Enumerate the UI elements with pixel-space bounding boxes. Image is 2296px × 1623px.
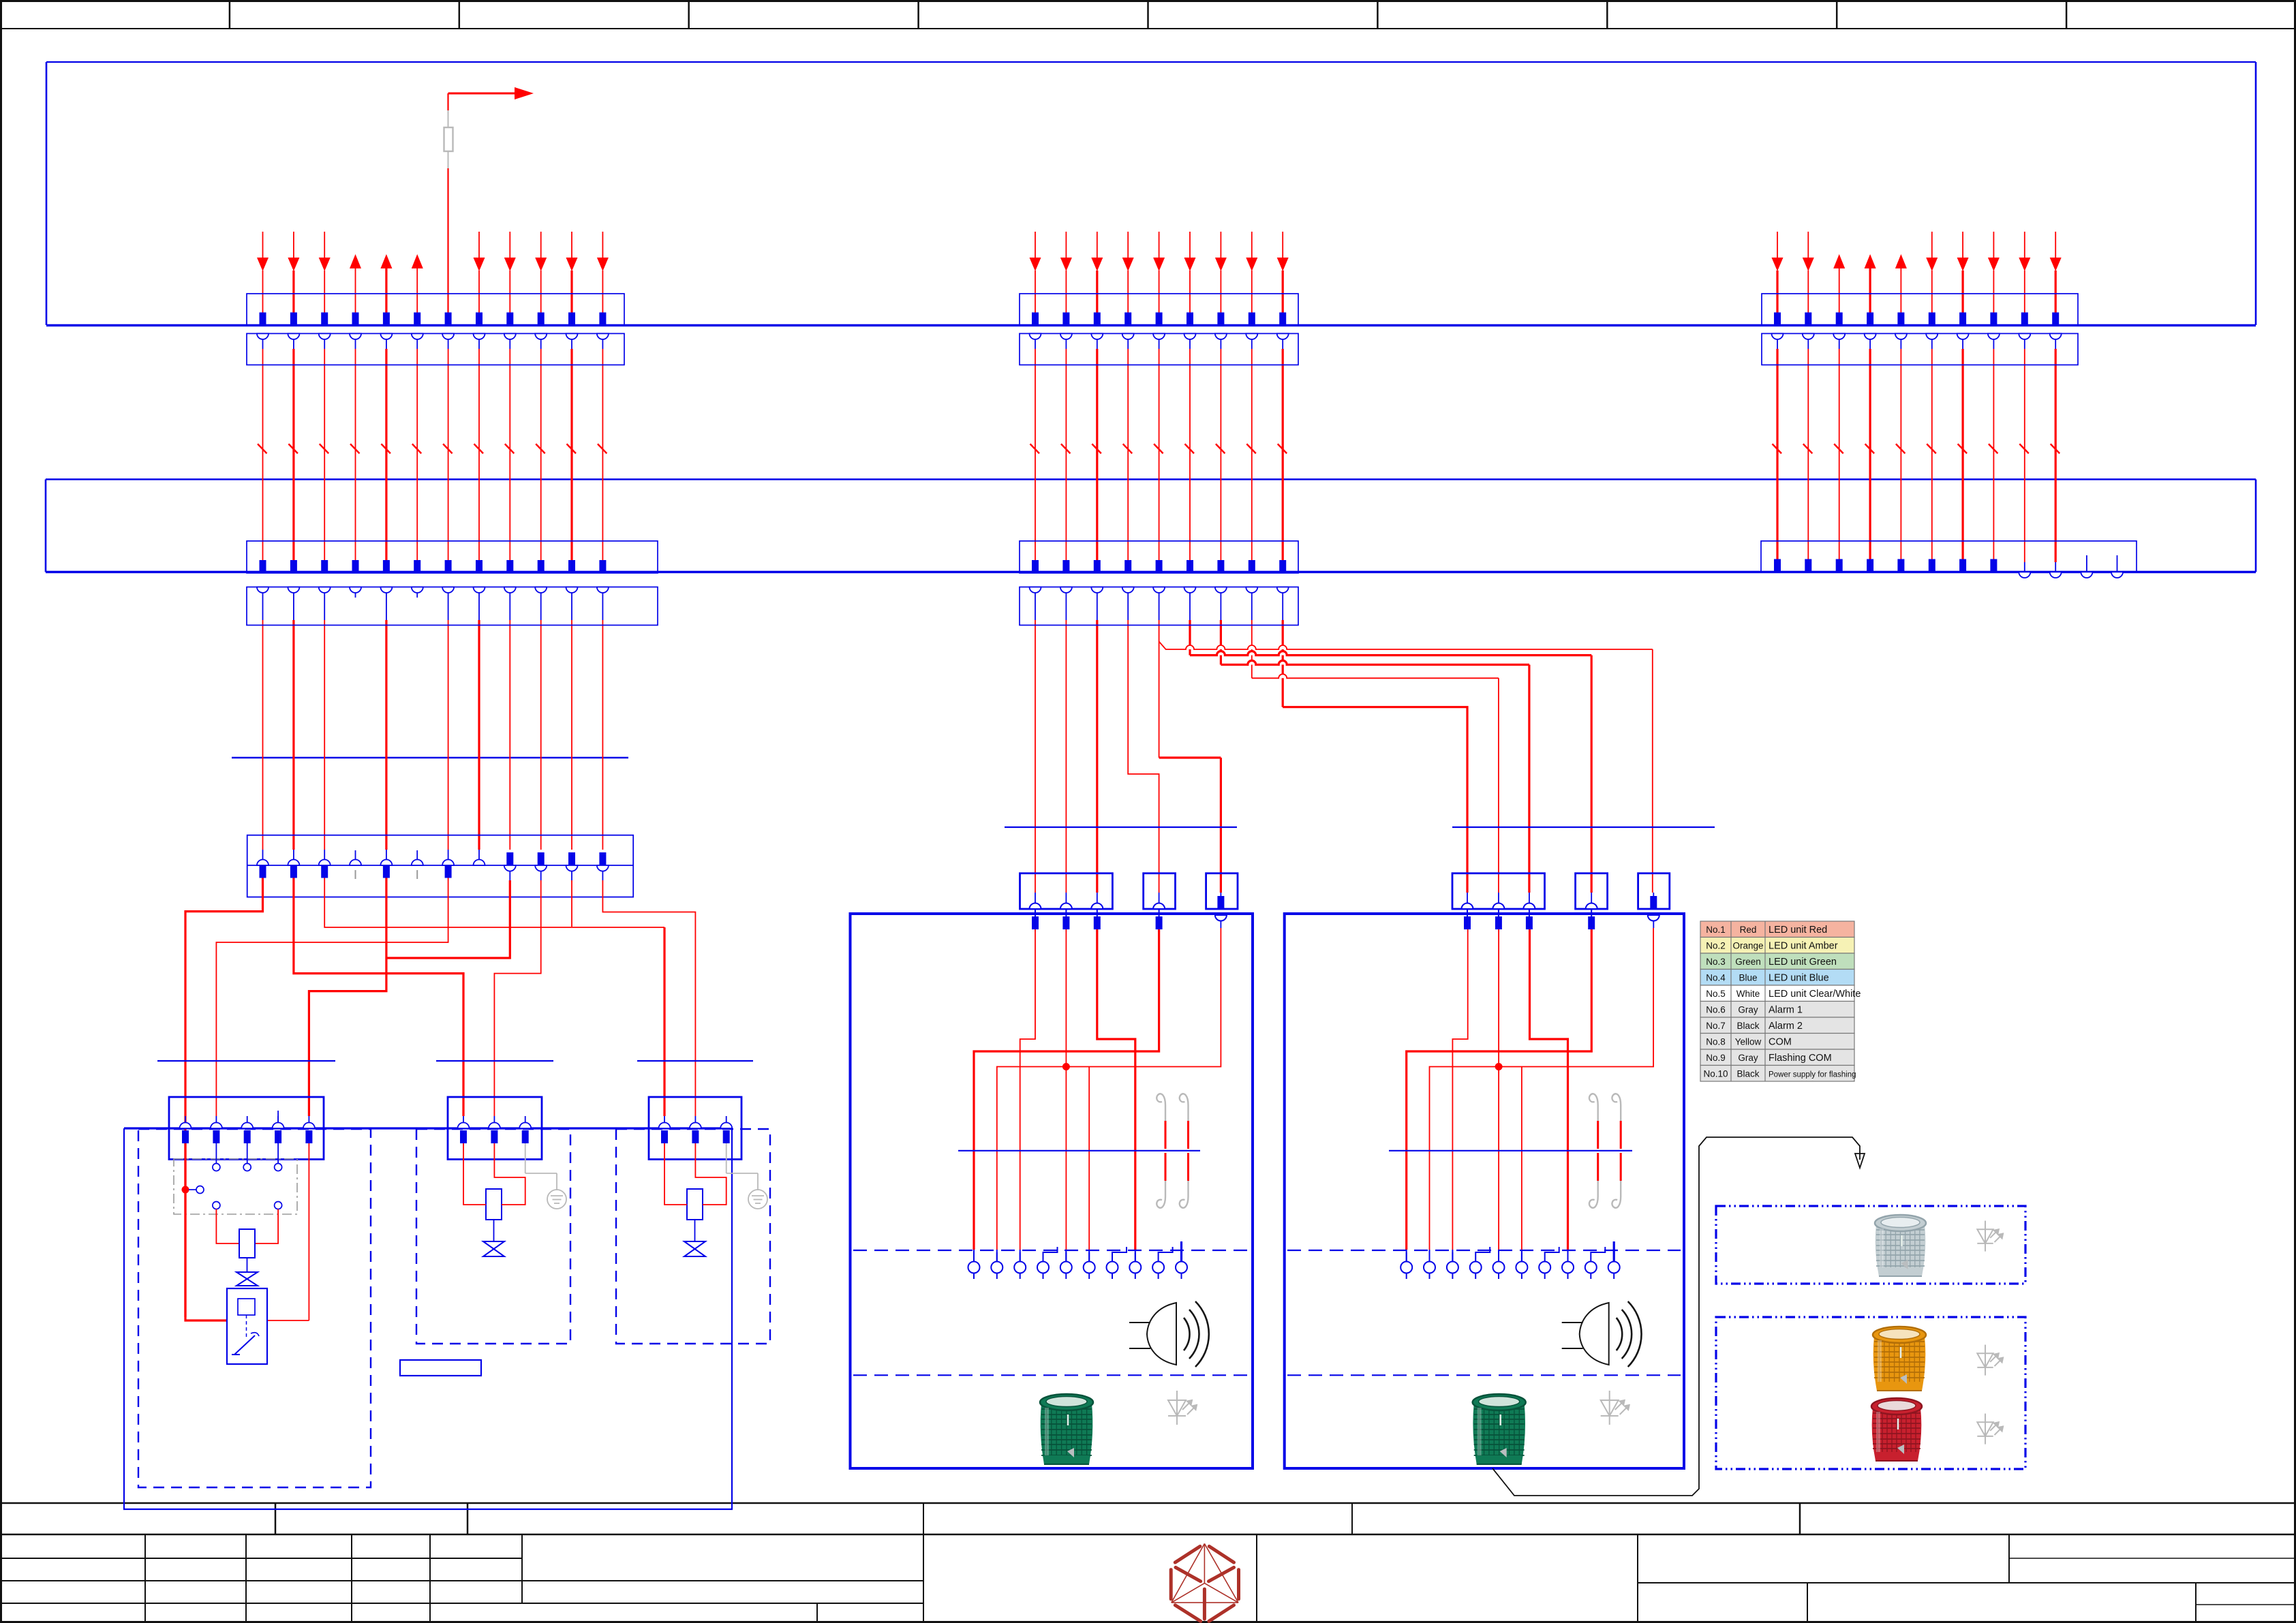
signal feeder wire M3 (1097, 587, 1098, 621)
wire row2-row3 L12 (602, 587, 603, 621)
dashed machine zone 1 (138, 1129, 371, 1487)
field wire R8 with arrow (1993, 232, 1994, 258)
signal feeder wire M5 (1159, 587, 1160, 621)
field wire L9 with arrow (509, 232, 510, 258)
signal tower unit box 2 (1285, 914, 1684, 1468)
row3 terminal pole 7 (442, 860, 454, 866)
wire and disconnect link L2 (293, 334, 294, 350)
right box cluster A (3 poles) (1452, 874, 1545, 909)
wire M5 split: right box cluster C and left box cluster C (1159, 620, 1160, 642)
wire and disconnect link R8 (1993, 334, 1994, 350)
left box cluster B (1144, 874, 1176, 909)
PLC cabinet band 2 (second bus enclosure) (46, 478, 2256, 480)
field wire M8 with arrow (1251, 232, 1253, 258)
svg-text:No.9: No.9 (1706, 1053, 1726, 1063)
svg-text:No.10: No.10 (1703, 1069, 1728, 1079)
field wire L3 with arrow (324, 232, 325, 258)
left box cluster C (1206, 874, 1238, 909)
svg-text:Orange: Orange (1732, 941, 1763, 951)
wire and disconnect link L11 (571, 334, 572, 350)
row3 terminal pole 2 (288, 860, 299, 866)
fuse F1 (448, 110, 449, 127)
svg-text:LED unit Clear/White: LED unit Clear/White (1769, 989, 1861, 1000)
title block lines (0, 1502, 2296, 1504)
wire row2-row3 L11 (571, 587, 572, 621)
junction dot (1495, 1064, 1502, 1070)
wire and disconnect link M8 (1251, 334, 1253, 350)
alarm contact 1a (1157, 1094, 1165, 1121)
LED symbol amber (1977, 1345, 2003, 1376)
LED symbol right box (1601, 1391, 1629, 1425)
svg-text:Black: Black (1736, 1069, 1759, 1079)
field wire R4 with arrow (1865, 254, 1876, 268)
wire and disconnect link M1 (1035, 334, 1036, 350)
row3 terminal pole 3 (319, 860, 331, 866)
horn sounder 2 (1562, 1301, 1642, 1367)
row3 terminal pole 12 (599, 852, 606, 865)
wires cluster2 (463, 1143, 486, 1205)
svg-text:Red: Red (1740, 925, 1757, 935)
terminal strip X1 row1 right (10 poles) (1762, 294, 2078, 326)
svg-text:Power supply for flashing: Power supply for flashing (1769, 1071, 1856, 1079)
signal feeder wire M6 (1189, 587, 1191, 621)
svg-text:No.7: No.7 (1706, 1021, 1726, 1031)
M5 horizontal to right cluster C with hops (1186, 645, 1194, 649)
row3 terminal pole 10 (538, 852, 545, 865)
wires cluster1 (215, 1143, 217, 1164)
wires cluster3 (664, 1143, 687, 1205)
valve terminal cluster 1 (5 poles) (169, 1097, 324, 1160)
svg-text:Blue: Blue (1739, 973, 1757, 983)
terminal circles row (968, 1262, 980, 1273)
field wire L4 with arrow (350, 254, 361, 268)
internal bus line left box (958, 1150, 1200, 1151)
wire and disconnect link M7 (1220, 334, 1221, 350)
wire and disconnect link R1 (1777, 334, 1778, 350)
name plate (400, 1360, 481, 1376)
wire M4 to cluster B left (1128, 620, 1159, 893)
row3 terminal pole 11 (568, 852, 575, 865)
row3 terminal pole 1 (257, 860, 269, 866)
left box cluster A (3 poles) (1020, 874, 1113, 909)
limit switch assembly (dash-dot) (174, 1159, 297, 1214)
wire and disconnect link M6 (1189, 334, 1191, 350)
LED unit photo amber (1873, 1327, 1926, 1391)
svg-text:No.5: No.5 (1706, 989, 1726, 999)
svg-text:No.8: No.8 (1706, 1037, 1726, 1047)
alarm contact 2a (1589, 1094, 1598, 1121)
field wire L2 with arrow (293, 232, 294, 258)
wire and disconnect link L8 (478, 334, 480, 350)
option box amber/red units (1716, 1317, 2025, 1469)
svg-text:LED unit Blue: LED unit Blue (1769, 973, 1829, 984)
field wire L10 with arrow (540, 232, 542, 258)
wire fuse to terminal row1 (447, 168, 448, 313)
svg-text:No.2: No.2 (1706, 941, 1726, 951)
signal feeder wire M1 (1035, 587, 1036, 621)
solenoid coil K2 (486, 1189, 502, 1220)
svg-text:No.1: No.1 (1706, 925, 1726, 935)
contact circles (213, 1164, 220, 1171)
field wire L12 with arrow (602, 232, 603, 258)
terminal strip X1 row1 left (12 poles) (247, 294, 624, 326)
signal feeder wire M8 (1251, 587, 1253, 621)
row3 terminal pole 9 (506, 852, 513, 865)
internal wiring (1452, 929, 1467, 1250)
row3 terminal pole 8 (474, 860, 485, 866)
company logo (1171, 1547, 1238, 1622)
valve V3 (694, 1220, 696, 1241)
signal feeder wire M7 (1220, 587, 1221, 621)
wire row2-row3 L9 (509, 587, 510, 621)
row3 terminal pole 6 (412, 860, 423, 866)
M7 horizontal to right cluster A3 with hops (1248, 661, 1256, 665)
field wire R3 with arrow (1833, 254, 1845, 268)
terminal strip X2 row2 left (247, 541, 658, 573)
svg-text:No.6: No.6 (1706, 1005, 1726, 1015)
field wire M2 with arrow (1065, 232, 1067, 258)
internal wiring (1020, 929, 1035, 1250)
LED symbol left box (1168, 1391, 1197, 1425)
wire and disconnect link R2 (1807, 334, 1809, 350)
field wire L5 with arrow (380, 254, 392, 268)
wire and disconnect link L4 (355, 334, 356, 350)
svg-text:No.3: No.3 (1706, 957, 1726, 967)
leader line to option boxes (1493, 1137, 1860, 1496)
signal tower unit box 1 (851, 914, 1253, 1468)
dashed machine zone 3 (616, 1129, 770, 1344)
svg-text:Alarm 1: Alarm 1 (1769, 1005, 1803, 1016)
wire and disconnect link L7 (448, 334, 449, 350)
wire and disconnect link L3 (324, 334, 325, 350)
wire row2-row3 L5 (386, 587, 387, 621)
LED unit photo green 1 (1040, 1394, 1093, 1464)
terminal circles row (1400, 1262, 1412, 1273)
svg-text:Flashing COM: Flashing COM (1769, 1053, 1832, 1064)
svg-text:COM: COM (1769, 1037, 1792, 1048)
field wire L1 with arrow (262, 232, 264, 258)
horn sounder 1 (1129, 1301, 1209, 1367)
signal feeder wire M2 (1065, 587, 1067, 621)
LED unit photo clear (1875, 1215, 1926, 1276)
earth ground E2 (525, 1143, 526, 1173)
wire and disconnect link M4 (1127, 334, 1129, 350)
wire row2-row3 L2 (293, 587, 294, 621)
wire color legend table (1700, 921, 1854, 938)
top zone strip (0, 28, 2296, 29)
field wire M5 with arrow (1159, 232, 1160, 258)
field wire M7 with arrow (1220, 232, 1221, 258)
alarm contact 1b (1180, 1094, 1189, 1121)
wire and disconnect link R4 (1869, 334, 1871, 350)
field wire L8 with arrow (478, 232, 480, 258)
svg-text:Black: Black (1736, 1021, 1759, 1031)
svg-text:White: White (1736, 989, 1760, 999)
wiring harness row3 to bottom devices (185, 878, 263, 1321)
svg-text:Gray: Gray (1738, 1005, 1758, 1015)
svg-text:LED unit Red: LED unit Red (1769, 925, 1827, 936)
wire row2-row3 L8 (478, 587, 480, 621)
LED symbol red (1977, 1414, 2003, 1444)
LED symbol clear (1977, 1221, 2003, 1252)
row3 terminal pole 5 (380, 860, 392, 866)
wire and disconnect link L5 (386, 334, 387, 350)
option box clear unit (1716, 1206, 2025, 1284)
field wire R9 with arrow (2024, 232, 2025, 258)
wire and disconnect link L6 (416, 334, 418, 350)
internal bus line right box (1389, 1150, 1632, 1151)
field wire M6 with arrow (1189, 232, 1191, 258)
field wire M9 with arrow (1282, 232, 1283, 258)
PLC cabinet band 1 (top bus enclosure) (46, 61, 2256, 63)
tower section separators (853, 1250, 1249, 1251)
valve terminal cluster 2 (3 poles) (448, 1097, 542, 1160)
field wire R6 with arrow (1931, 232, 1933, 258)
wire M9 to right cluster A1 (1283, 707, 1467, 893)
pressure switch box (227, 1288, 267, 1364)
wire and disconnect link L9 (509, 334, 510, 350)
wire and disconnect link L12 (602, 334, 603, 350)
svg-text:Alarm 2: Alarm 2 (1769, 1021, 1803, 1032)
terminal strip X2 row2 right (8 squares + 4 arcs) (1761, 541, 2137, 572)
wire and disconnect link R10 (2055, 334, 2056, 350)
wire and disconnect link R3 (1839, 334, 1840, 350)
wire row2-row3 L10 (540, 587, 542, 621)
field wire R1 with arrow (1777, 232, 1778, 258)
cabinet entry line left (1005, 826, 1237, 828)
LED unit photo red (1871, 1398, 1922, 1461)
wire and disconnect link R5 (1900, 334, 1901, 350)
wire and disconnect link R9 (2024, 334, 2025, 350)
LED unit photo green 2 (1473, 1394, 1526, 1464)
dashed machine zone 2 (416, 1129, 570, 1344)
wire row2-row3 L1 (262, 587, 264, 621)
field wire M3 with arrow (1097, 232, 1098, 258)
cabinet entry line right (1452, 826, 1715, 828)
field wire R10 with arrow (2055, 232, 2056, 258)
junction dot (1062, 1064, 1069, 1070)
wire and disconnect link M9 (1282, 334, 1283, 350)
field wire R7 with arrow (1962, 232, 1963, 258)
wire row2-row3 L3 (324, 587, 325, 621)
field wire L6 with arrow (412, 254, 423, 268)
wire and disconnect link M3 (1097, 334, 1098, 350)
field wire L11 with arrow (571, 232, 572, 258)
terminal strip X1 row1 middle (9 poles) (1020, 294, 1298, 326)
M8 horizontal to right cluster A2 with hops (1279, 674, 1287, 678)
wire and disconnect link R7 (1962, 334, 1963, 350)
wire and disconnect link R6 (1931, 334, 1933, 350)
terminal strip X2 row2 middle (1020, 541, 1298, 573)
wire row2-row3 L7 (448, 587, 449, 621)
wire and disconnect link L1 (262, 334, 264, 350)
wire row2-row3 L4 (355, 587, 356, 598)
signal feeder wire M4 (1127, 587, 1129, 621)
svg-text:LED unit Amber: LED unit Amber (1769, 941, 1838, 952)
terminal strip X3 row3 left group (247, 835, 634, 897)
field wire M1 with arrow (1035, 232, 1036, 258)
control panel enclosure box (124, 1128, 732, 1509)
svg-text:LED unit Green: LED unit Green (1769, 957, 1837, 968)
M6 horizontal to right cluster B with hops (1216, 651, 1225, 655)
earth ground E3 (726, 1143, 727, 1173)
solenoid coil K1 (239, 1229, 255, 1258)
solenoid coil K3 (687, 1189, 703, 1220)
wire and disconnect link M5 (1159, 334, 1160, 350)
switch common: junction dot and contact (182, 1186, 189, 1193)
vertical feeders M6-M9 (1189, 620, 1191, 655)
bus line inside lower cabinet, left group (232, 757, 628, 759)
wire and disconnect link L10 (540, 334, 542, 350)
wire row2-row3 L6 (416, 587, 418, 598)
field wire M4 with arrow (1127, 232, 1129, 258)
right box cluster B (1576, 874, 1608, 909)
valve terminal cluster 3 (3 poles) (649, 1097, 741, 1160)
svg-text:Yellow: Yellow (1735, 1037, 1762, 1047)
right box cluster C (1638, 874, 1670, 909)
svg-text:Green: Green (1735, 957, 1761, 967)
svg-text:No.4: No.4 (1706, 973, 1726, 983)
wire and disconnect link M2 (1065, 334, 1067, 350)
valve V2 (493, 1220, 495, 1241)
row3 terminal pole 4 (350, 860, 361, 866)
reference arrow to other sheet (448, 93, 525, 95)
field wire R2 with arrow (1807, 232, 1809, 258)
field wire R5 with arrow (1895, 254, 1907, 268)
signal feeder wire M9 (1282, 587, 1283, 621)
svg-text:Gray: Gray (1738, 1053, 1758, 1063)
alarm contact 2b (1612, 1094, 1621, 1121)
valve V1 (236, 1272, 258, 1286)
